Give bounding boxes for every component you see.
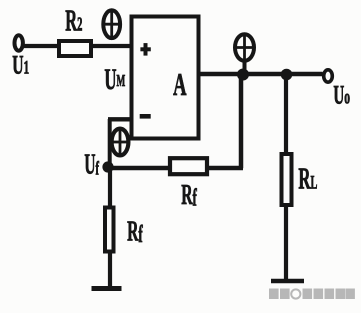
svg-text:Uo: Uo [333, 80, 350, 109]
svg-text:A: A [173, 67, 186, 102]
